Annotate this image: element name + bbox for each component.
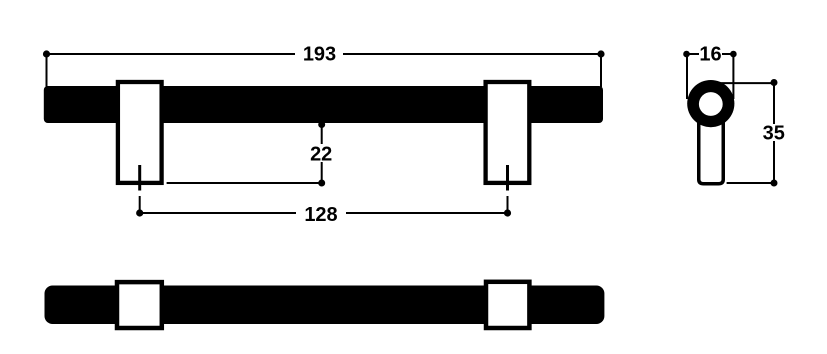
svg-text:22: 22: [310, 144, 332, 166]
dimension 16 right dot: [730, 51, 737, 58]
dimension 22 line: [321, 124, 323, 183]
right post center line (dashed): [506, 165, 509, 211]
right post (top view): [486, 82, 530, 183]
top view bar: [44, 86, 603, 123]
dimension 193 line: [47, 53, 602, 55]
bottom view left square: [117, 282, 162, 328]
svg-text:35: 35: [763, 123, 785, 145]
bottom view bar: [45, 286, 605, 325]
dimension 16 left extension line: [686, 54, 688, 99]
dimension 128 line: [140, 212, 508, 214]
dimension 22 bottom dot: [318, 180, 325, 187]
svg-text:128: 128: [304, 204, 337, 226]
dimension 16 left dot: [683, 51, 690, 58]
side view ring outer circle: [687, 80, 734, 127]
dimension 128 left dot: [136, 209, 143, 216]
dimension 35 bottom dot: [771, 180, 778, 187]
dimension 35 top dot: [771, 79, 778, 86]
dimension 35 line: [773, 83, 775, 184]
dimension 128 right dot: [504, 209, 511, 216]
left post (top view): [118, 82, 162, 183]
dimension 35 top extension line: [720, 82, 774, 84]
dimension 35 bottom extension line: [727, 182, 774, 184]
side view stem: [699, 112, 724, 184]
dimension 193 left dot: [43, 50, 50, 57]
side view ring inner circle: [699, 92, 723, 116]
svg-text:193: 193: [303, 44, 336, 66]
dimension 22 top dot: [318, 121, 325, 128]
bottom view right square: [486, 282, 529, 328]
dimension 16 right extension line: [732, 54, 734, 99]
dimension 193 right dot: [597, 50, 604, 57]
dimension 16 line: [687, 53, 734, 55]
dimension 193 right extension line: [600, 54, 602, 87]
dimension 193 left extension line: [46, 54, 48, 87]
dimension 22 leader line: [167, 182, 322, 184]
svg-text:16: 16: [699, 44, 721, 66]
left post center line (dashed): [138, 165, 141, 211]
